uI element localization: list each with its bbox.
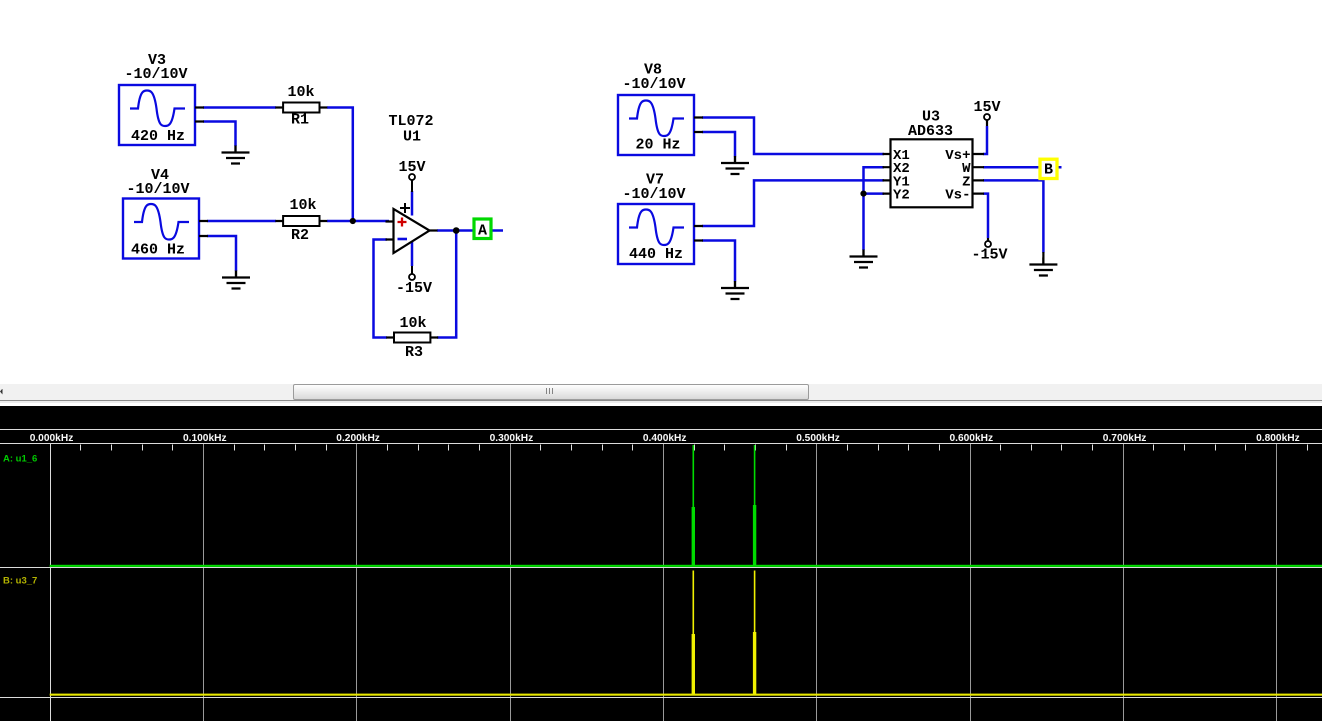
svg-text:U1: U1 xyxy=(403,129,421,146)
svg-text:10k: 10k xyxy=(399,315,426,332)
svg-text:R2: R2 xyxy=(291,227,309,244)
svg-text:-10/10V: -10/10V xyxy=(126,181,189,198)
svg-text:A: u1_6: A: u1_6 xyxy=(3,454,37,465)
svg-text:-10/10V: -10/10V xyxy=(622,186,685,203)
svg-text:R3: R3 xyxy=(405,344,423,361)
svg-text:0.200kHz: 0.200kHz xyxy=(336,433,380,444)
svg-text:460 Hz: 460 Hz xyxy=(131,242,185,259)
svg-text:AD633: AD633 xyxy=(908,123,953,140)
svg-text:0.600kHz: 0.600kHz xyxy=(949,433,993,444)
svg-text:10k: 10k xyxy=(287,84,314,101)
svg-text:0.700kHz: 0.700kHz xyxy=(1103,433,1147,444)
svg-text:-10/10V: -10/10V xyxy=(124,66,187,83)
svg-text:-15V: -15V xyxy=(396,280,432,297)
svg-text:TL072: TL072 xyxy=(388,113,433,130)
svg-text:Y2: Y2 xyxy=(893,188,910,204)
svg-text:20 Hz: 20 Hz xyxy=(635,137,680,154)
svg-text:B: B xyxy=(1044,162,1053,179)
svg-text:B: u3_7: B: u3_7 xyxy=(3,576,37,587)
svg-text:0.100kHz: 0.100kHz xyxy=(183,433,227,444)
svg-text:R1: R1 xyxy=(291,112,309,129)
svg-text:0.800kHz: 0.800kHz xyxy=(1256,433,1300,444)
svg-text:0.300kHz: 0.300kHz xyxy=(490,433,534,444)
svg-text:0.500kHz: 0.500kHz xyxy=(796,433,840,444)
svg-text:-15V: -15V xyxy=(971,247,1007,264)
svg-text:0.400kHz: 0.400kHz xyxy=(643,433,687,444)
svg-text:Vs-: Vs- xyxy=(945,188,970,204)
svg-text:10k: 10k xyxy=(289,197,316,214)
svg-text:15V: 15V xyxy=(973,99,1000,116)
svg-text:-10/10V: -10/10V xyxy=(622,76,685,93)
svg-text:0.000kHz: 0.000kHz xyxy=(30,433,74,444)
svg-text:440 Hz: 440 Hz xyxy=(629,246,683,263)
svg-text:A: A xyxy=(478,223,487,240)
svg-text:15V: 15V xyxy=(398,159,425,176)
svg-text:420 Hz: 420 Hz xyxy=(131,128,185,145)
